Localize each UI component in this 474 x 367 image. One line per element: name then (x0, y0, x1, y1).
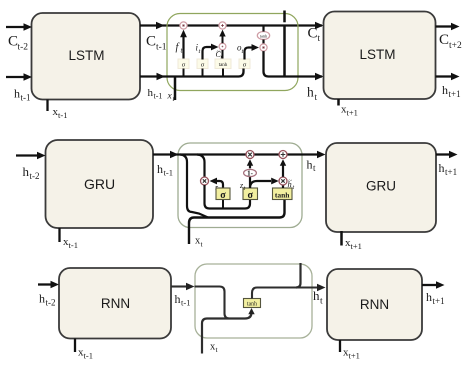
wire h path down inside RNN cell (195, 287, 239, 319)
svg-text:GRU: GRU (84, 176, 115, 192)
label h~_t (288, 178, 295, 192)
label z_t (239, 181, 246, 192)
label x_t-1 (53, 106, 68, 120)
wire x_t input up into cell (174, 77, 177, 101)
label x_t+1 RNN (343, 347, 360, 361)
node tanh oval on output branch (257, 32, 269, 40)
gate tanh box GRU (273, 188, 293, 200)
label x_t at cell bottom (167, 92, 176, 104)
svg-text:t: t (216, 345, 219, 354)
wire h output rail to right (264, 51, 324, 80)
label h_t-2 RNN (39, 292, 56, 308)
svg-text:t-1: t-1 (69, 240, 78, 250)
label x_t+1 GRU (345, 237, 362, 251)
label o_t (237, 43, 244, 56)
label h_t+1 (442, 83, 461, 99)
svg-text:h: h (39, 292, 45, 306)
gate sigma z box (243, 188, 258, 201)
RNN block right (327, 269, 422, 340)
wire f_t arrow up (180, 30, 187, 60)
wire i_t arrow into candidate multiply (203, 44, 219, 60)
svg-text:t: t (320, 297, 323, 307)
svg-text:~: ~ (288, 178, 292, 185)
svg-text:t-1: t-1 (58, 110, 67, 120)
gate sigma box 4 (239, 59, 250, 69)
wire C line (cell state) across middle (140, 22, 324, 29)
svg-text:h: h (14, 87, 20, 101)
svg-text:C: C (146, 34, 156, 50)
wire h_t+1 output arrow GRU (436, 151, 458, 158)
svg-text:t: t (242, 48, 244, 55)
svg-text:t+1: t+1 (433, 296, 445, 306)
wire x_t+1 input GRU right (340, 231, 343, 246)
wire h_t-2 input arrow RNN (38, 281, 59, 288)
RNN cell green box (195, 264, 312, 338)
wire tanh box to candidate multiply (222, 50, 224, 60)
svg-text:t+1: t+1 (351, 241, 362, 251)
wire candidate multiply up to add (219, 30, 225, 44)
svg-text:t-2: t-2 (18, 43, 29, 53)
wire x_t path and arrow into tanh (202, 308, 255, 354)
wire C line branch down to tanh (262, 26, 264, 32)
svg-text:t-1: t-1 (156, 43, 167, 53)
svg-text:t: t (201, 240, 204, 249)
wire h-tilde multiply arrow up into add (280, 159, 286, 177)
label h_t RNN (313, 288, 323, 307)
svg-text:t+1: t+1 (445, 167, 457, 177)
svg-text:h: h (307, 85, 314, 100)
wire x_t-1 input (46, 100, 48, 112)
svg-text:C: C (308, 26, 318, 42)
svg-text:LSTM: LSTM (68, 48, 104, 63)
node forget-multiply on C line (180, 22, 187, 29)
wire h_t up branch (283, 11, 286, 23)
label h_t-2 (23, 164, 40, 181)
svg-text:t-1: t-1 (154, 92, 163, 101)
label h_t (307, 85, 318, 104)
node add on C line (219, 22, 226, 29)
label C_t-1 (146, 34, 167, 53)
wire x_t rail into tanh (189, 200, 285, 245)
svg-text:t: t (293, 185, 295, 191)
gate sigma box 1 (178, 59, 189, 69)
svg-text:t: t (313, 163, 316, 173)
svg-text:h: h (157, 162, 163, 176)
node candidate multiply (219, 43, 226, 50)
node reset multiply (201, 177, 209, 185)
svg-text:h: h (426, 290, 432, 304)
wire C_t+2 output arrow (436, 23, 460, 30)
svg-text:LSTM: LSTM (359, 47, 395, 62)
svg-text:t: t (199, 48, 201, 55)
wire x_t+1 input RNN right (339, 340, 341, 352)
svg-text:t-2: t-2 (30, 171, 40, 181)
wire tick rail to sigma1 (183, 69, 185, 77)
label C_t+2 (439, 32, 462, 51)
wire tick rail to sigma2 (202, 69, 204, 77)
node add on h line (279, 151, 287, 159)
wire h_t up branch RNN (296, 263, 301, 288)
label h_t-1 (14, 87, 31, 103)
wire tick rail to tanh3 (222, 69, 224, 77)
svg-text:t-1: t-1 (164, 168, 173, 178)
label i_t (196, 43, 201, 56)
wire tick to sigma r (222, 200, 224, 209)
label r_t (215, 183, 221, 194)
svg-text:σ: σ (243, 62, 247, 69)
svg-text:t: t (315, 93, 318, 103)
wire h_t-1 arrow into RNN cell (171, 283, 195, 290)
svg-text:h: h (175, 292, 181, 306)
label C_t (308, 26, 321, 45)
wire tanh up to h-tilde multiply (282, 186, 284, 189)
wire reset output down to tanh rail (205, 185, 251, 209)
svg-text:t-1: t-1 (84, 351, 93, 361)
svg-text:RNN: RNN (360, 297, 389, 312)
svg-text:h: h (313, 288, 320, 303)
label x_t GRU (195, 236, 204, 249)
wire tanh output to right (252, 284, 326, 299)
svg-text:t-1: t-1 (21, 93, 31, 103)
svg-text:h: h (442, 83, 448, 97)
wire gate input rail (140, 69, 244, 81)
svg-text:C: C (439, 32, 449, 48)
wire z_t arrow right into h-tilde multiply (250, 178, 279, 188)
wire h line across GRU (153, 151, 326, 158)
svg-text:t+1: t+1 (449, 89, 461, 99)
wire x_t-1 input (58, 228, 60, 242)
label h_t GRU right (307, 158, 317, 174)
wire h_t-1 input arrow (6, 73, 32, 80)
node h-tilde multiply (279, 177, 287, 185)
svg-text:σ: σ (220, 190, 226, 201)
label h_t-1 RNN (175, 292, 191, 308)
node multiply on h line (246, 151, 254, 159)
wire h_t-2 input arrow (16, 152, 46, 159)
label x_t-1 (63, 236, 78, 250)
label x_t+1 (341, 104, 358, 118)
wire x_t+1 input right (337, 99, 340, 106)
label C_t-2 (8, 34, 28, 53)
svg-text:t-1: t-1 (181, 298, 190, 308)
wire h branch down to gates rail (180, 155, 208, 218)
svg-text:t+2: t+2 (449, 41, 462, 51)
gate tanh box 3 (215, 59, 231, 69)
wire h branch down to reset multiply (197, 155, 205, 178)
node 1-minus oval (244, 169, 257, 177)
svg-text:t+1: t+1 (349, 351, 360, 361)
svg-text:t+1: t+1 (347, 108, 358, 118)
label x_t-1 RNN (78, 347, 93, 361)
wire 1-minus arrow up into multiply (247, 159, 253, 168)
LSTM block right (324, 12, 436, 100)
gate tanh box RNN (244, 299, 261, 308)
gate sigma r box (216, 188, 230, 201)
wire C_t-2 input arrow (6, 23, 32, 30)
label h_t-1 at cell bottom (148, 87, 163, 101)
GRU cell green box (178, 143, 302, 228)
svg-text:h: h (439, 161, 445, 175)
svg-text:tanh: tanh (219, 63, 228, 68)
svg-text:RNN: RNN (101, 296, 130, 311)
svg-text:h: h (307, 158, 313, 172)
svg-text:tanh: tanh (247, 302, 257, 308)
RNN block left (59, 268, 171, 339)
wire z up to 1-minus (249, 177, 251, 188)
svg-text:tanh: tanh (260, 33, 268, 38)
GRU block right (326, 143, 436, 232)
label C~_t (216, 49, 223, 62)
wire h_t+1 output arrow RNN (422, 281, 445, 288)
label f_t (176, 42, 184, 55)
svg-text:GRU: GRU (366, 179, 396, 194)
svg-text:h: h (23, 164, 30, 179)
wire tanh to output multiply (262, 40, 264, 44)
label h_t-1 GRU (157, 162, 173, 178)
node output multiply (260, 44, 267, 51)
label x_t RNN (210, 342, 219, 355)
svg-text:t-2: t-2 (46, 298, 56, 308)
gate sigma box 2 (197, 59, 208, 69)
wire r_t arrow into reset multiply (210, 178, 224, 188)
svg-text:1-: 1- (247, 170, 254, 178)
svg-text:t: t (318, 34, 321, 44)
wire o_t arrow into output multiply (245, 44, 260, 59)
svg-text:C: C (8, 34, 18, 50)
svg-text:tanh: tanh (275, 191, 290, 200)
LSTM block left (32, 13, 141, 100)
GRU block left (46, 140, 154, 228)
svg-text:σ: σ (182, 62, 186, 69)
wire x_t-1 input RNN (74, 339, 76, 353)
svg-text:σ: σ (247, 190, 253, 201)
LSTM cell green box (167, 14, 298, 91)
wire h_t+1 output arrow (436, 73, 460, 80)
label h_t+1 RNN (426, 290, 445, 306)
label h_t+1 GRU (439, 161, 458, 177)
svg-text:σ: σ (201, 62, 205, 69)
